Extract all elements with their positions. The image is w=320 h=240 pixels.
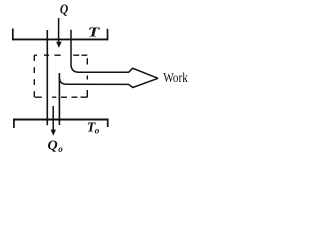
svg-text:Q: Q — [60, 2, 68, 17]
svg-text:Work: Work — [163, 71, 188, 86]
svg-text:T: T — [88, 26, 101, 41]
